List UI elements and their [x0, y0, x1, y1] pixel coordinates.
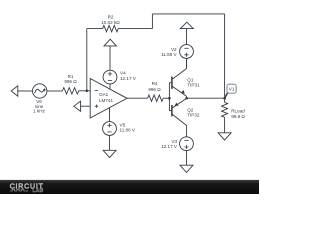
resistor R1	[62, 88, 78, 94]
wire	[87, 28, 103, 30]
svg-text:99.8 Ω: 99.8 Ω	[231, 114, 245, 119]
transistor Q2	[169, 110, 172, 112]
svg-text:R1: R1	[68, 74, 74, 79]
svg-text:996 Ω: 996 Ω	[64, 79, 77, 84]
svg-text:996 Ω: 996 Ω	[148, 87, 161, 92]
label R1 value	[64, 74, 77, 84]
voltage source V4	[103, 70, 117, 84]
op-amp OA1	[90, 79, 127, 119]
node base junction	[168, 97, 171, 100]
label V2 value	[161, 47, 177, 57]
svg-text:R2: R2	[108, 14, 114, 19]
svg-text:12.17 V: 12.17 V	[120, 76, 137, 81]
wire	[118, 28, 152, 30]
wire	[186, 29, 188, 45]
svg-text:12.17 V: 12.17 V	[161, 144, 178, 149]
svg-text:LM741: LM741	[99, 98, 113, 103]
wire	[151, 14, 153, 29]
wire	[109, 135, 111, 150]
label OA1	[99, 92, 113, 103]
node feedback junction	[86, 90, 89, 93]
wire (top)	[152, 13, 224, 15]
wire	[109, 46, 111, 70]
label V3 value	[161, 139, 178, 149]
ground (below RLoad)	[218, 133, 231, 140]
resistor R2	[103, 25, 119, 31]
svg-text:RLoad: RLoad	[231, 108, 245, 113]
svg-text:OA1: OA1	[99, 92, 109, 97]
label R4 value	[148, 81, 161, 92]
power VCC arrow above V4	[104, 39, 116, 46]
label Q1 value	[187, 78, 200, 88]
svg-text:TIP32: TIP32	[187, 113, 200, 118]
ground (arrow at op-amp + input)	[74, 101, 81, 111]
label V6 value	[33, 99, 45, 113]
svg-text:1 kHz: 1 kHz	[33, 109, 45, 114]
node label V1 leader	[225, 93, 228, 98]
wire	[81, 105, 91, 107]
power VCC arrow above V2	[180, 22, 193, 28]
resistor R4	[148, 95, 164, 101]
voltage source V5	[103, 122, 117, 136]
label V4 value	[120, 71, 137, 81]
wire	[109, 84, 111, 89]
wire	[186, 151, 188, 166]
voltage source V3	[180, 137, 194, 151]
wire (feedback vertical)	[86, 29, 88, 91]
svg-text:LAB: LAB	[33, 188, 44, 194]
wire (op-amp output)	[127, 97, 148, 99]
svg-text:11.86 V: 11.86 V	[161, 52, 177, 57]
svg-text:11.86 V: 11.86 V	[120, 128, 136, 133]
wire	[18, 90, 33, 92]
ground (below V5)	[103, 150, 116, 157]
wire	[47, 90, 63, 92]
wire	[163, 97, 169, 99]
wire	[186, 58, 188, 68]
svg-text:10.02 kΩ: 10.02 kΩ	[101, 20, 120, 25]
transistor Q1	[169, 82, 172, 84]
voltage source V6 (sine)	[33, 84, 47, 98]
wire	[79, 90, 91, 92]
wire (right vertical)	[224, 14, 226, 102]
wire	[224, 117, 226, 133]
svg-text:V5: V5	[120, 122, 126, 127]
svg-text:TIP31: TIP31	[187, 83, 200, 88]
resistor RLoad	[222, 102, 228, 117]
node label V1 box	[227, 84, 236, 93]
label Q2 value	[187, 108, 200, 118]
wire (base vertical)	[168, 83, 170, 111]
voltage source V2	[180, 45, 194, 59]
svg-text:V1: V1	[229, 87, 235, 92]
wire	[109, 108, 111, 122]
ground (left arrow at source)	[11, 86, 18, 96]
node V1 junction	[223, 97, 226, 100]
wire (output rail)	[187, 97, 225, 99]
logo waveform	[10, 189, 28, 191]
label RLoad value	[231, 108, 245, 119]
footer bar	[0, 180, 259, 194]
svg-text:R4: R4	[152, 81, 158, 86]
ground (below V3)	[180, 165, 193, 172]
node emitter junction	[185, 97, 188, 100]
label R2 value	[101, 14, 120, 25]
label V5 value	[120, 122, 136, 132]
